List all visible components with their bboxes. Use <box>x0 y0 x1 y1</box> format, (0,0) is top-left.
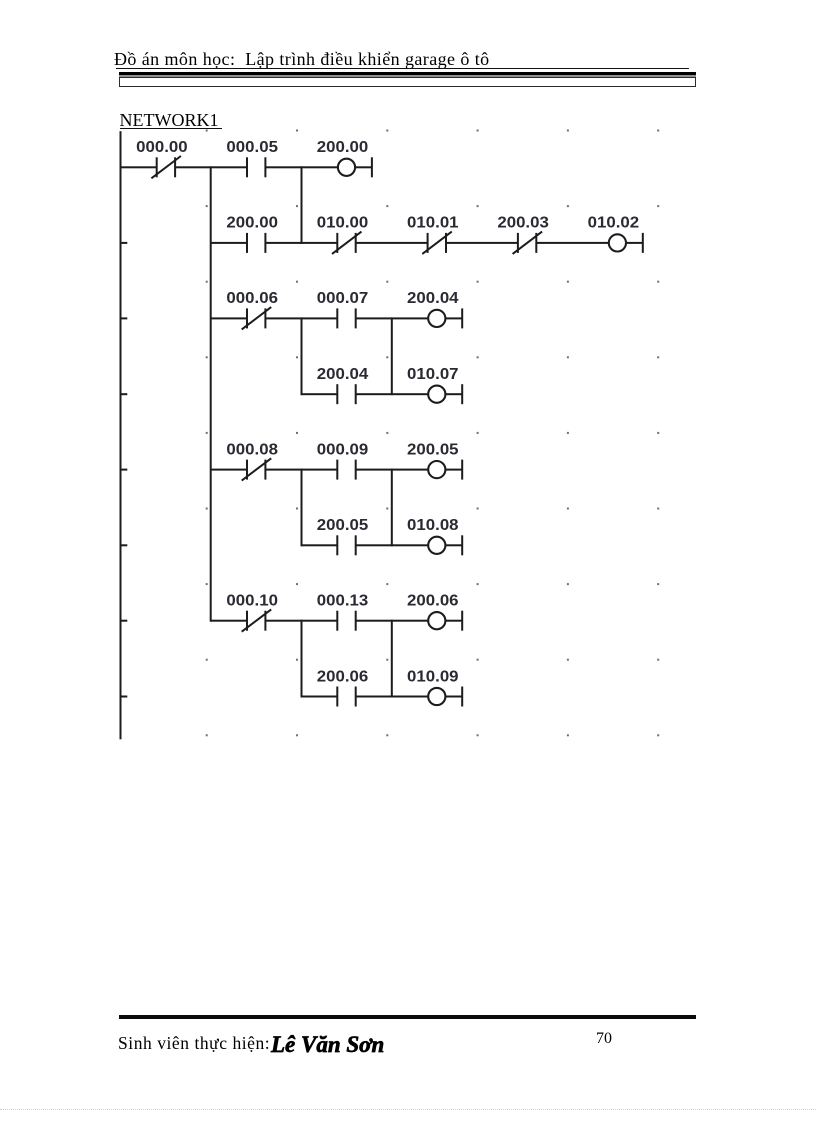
coil 010.08 <box>428 537 445 554</box>
coil 010.07 <box>428 386 445 403</box>
svg-text:000.13: 000.13 <box>317 593 369 610</box>
svg-text:000.06: 000.06 <box>226 290 278 307</box>
footer student text <box>118 1033 275 1054</box>
vertical wire rung4-rung4b right join <box>391 469 393 547</box>
contact 000.06 (NC) <box>242 307 272 329</box>
end bar rung1 <box>371 157 373 177</box>
end bar rung2 <box>642 233 644 253</box>
rail tick rung2 <box>121 242 128 244</box>
contact 000.13 (NO) <box>336 611 356 631</box>
wire rung3b <box>302 393 463 395</box>
end bar rung3b <box>461 384 463 404</box>
contact 000.09 (NO) <box>336 460 356 480</box>
svg-text:000.10: 000.10 <box>226 593 278 610</box>
coil 200.04 <box>428 310 445 327</box>
contact 010.00 (NC) <box>332 232 362 254</box>
svg-text:200.00: 200.00 <box>226 215 278 232</box>
end bar rung4b <box>461 535 463 555</box>
vertical wire rung3-rung3b left branch <box>301 317 303 395</box>
wire rung5b <box>302 696 463 698</box>
svg-text:000.08: 000.08 <box>226 441 278 458</box>
wire rung5 <box>211 620 462 622</box>
contact 200.05 (NO) <box>336 535 356 555</box>
footer student name (script) <box>271 1032 384 1058</box>
contact 000.08 (NC) <box>242 458 272 480</box>
rail tick rung4 <box>121 469 128 471</box>
end bar rung5 <box>461 611 463 631</box>
contact 200.06 (NO) <box>336 687 356 707</box>
rail tick rung3 <box>121 317 128 319</box>
svg-text:000.00: 000.00 <box>136 139 188 156</box>
wire rung4b <box>302 544 463 546</box>
svg-text:000.07: 000.07 <box>317 290 369 307</box>
contact 200.03 (NC) <box>513 232 543 254</box>
rail tick rung4b <box>121 544 128 546</box>
svg-text:010.08: 010.08 <box>407 517 459 534</box>
svg-text:200.00: 200.00 <box>317 139 369 156</box>
vertical wire rung1-rung2 <box>301 166 303 244</box>
contact 200.04 (NO) <box>336 384 356 404</box>
svg-text:010.09: 010.09 <box>407 668 459 685</box>
vertical wire rung4-rung4b left branch <box>301 469 303 547</box>
svg-text:200.04: 200.04 <box>407 290 459 307</box>
header border box gray bar <box>119 75 696 77</box>
svg-text:010.02: 010.02 <box>588 215 640 232</box>
svg-text:200.05: 200.05 <box>407 441 459 458</box>
contact 000.10 (NC) <box>242 609 272 631</box>
vertical wire rung3-rung3b right join <box>391 317 393 395</box>
branch rail (junction column) <box>210 166 212 621</box>
rail tick rung5b <box>121 696 128 698</box>
end bar rung3 <box>461 308 463 328</box>
contact 000.05 (NO) <box>246 157 266 177</box>
header border box thick bar <box>119 72 696 75</box>
vertical wire rung5-rung5b left branch <box>301 620 303 698</box>
svg-text:200.04: 200.04 <box>317 366 369 383</box>
end bar rung4 <box>461 460 463 480</box>
NETWORK1 underline <box>120 128 222 130</box>
rail tick rung3b <box>121 393 128 395</box>
svg-text:010.00: 010.00 <box>317 215 369 232</box>
svg-text:010.01: 010.01 <box>407 215 459 232</box>
footer dotted separator <box>0 1109 816 1110</box>
coil 010.09 <box>428 688 445 705</box>
rail tick rung5 <box>121 620 128 622</box>
svg-text:200.03: 200.03 <box>497 215 549 232</box>
footer rule <box>119 1015 697 1019</box>
NETWORK1 heading <box>120 110 219 131</box>
wire rung4 <box>211 469 462 471</box>
header underline <box>116 68 689 70</box>
svg-text:000.05: 000.05 <box>226 139 278 156</box>
header title text <box>114 49 490 70</box>
wire rung2 <box>211 242 643 244</box>
contact 010.01 (NC) <box>422 232 452 254</box>
vertical wire rung5-rung5b right join <box>391 620 393 698</box>
svg-text:010.07: 010.07 <box>407 366 459 383</box>
end bar rung5b <box>461 687 463 707</box>
svg-text:200.05: 200.05 <box>317 517 369 534</box>
contact 000.07 (NO) <box>336 308 356 328</box>
contact 000.00 (NC) <box>151 156 181 178</box>
wire rung1 <box>121 166 372 168</box>
coil 010.02 <box>609 234 626 251</box>
wire rung3 <box>211 317 462 319</box>
contact 200.00 (NO) <box>246 233 266 253</box>
footer page number 70 <box>596 1030 612 1048</box>
header border box outline <box>119 77 696 87</box>
svg-text:200.06: 200.06 <box>407 593 459 610</box>
coil 200.00 <box>338 159 355 176</box>
svg-text:000.09: 000.09 <box>317 441 369 458</box>
coil 200.05 <box>428 461 445 478</box>
coil 200.06 <box>428 612 445 629</box>
svg-text:200.06: 200.06 <box>317 668 369 685</box>
left power rail <box>120 131 122 739</box>
